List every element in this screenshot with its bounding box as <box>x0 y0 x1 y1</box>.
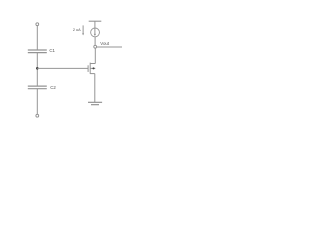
terminal bottom-left <box>36 114 39 117</box>
wire rail to current source <box>94 21 96 28</box>
wire C1 to junction to C2 <box>36 53 38 87</box>
svg-text:C2: C2 <box>50 85 56 90</box>
current source arrow <box>94 28 96 34</box>
annotation arrow down <box>82 25 84 33</box>
svg-text:2 uA: 2 uA <box>73 28 81 32</box>
junction dot node G <box>36 67 39 70</box>
current source I1 circle <box>91 28 100 37</box>
capacitor C2 <box>28 86 47 89</box>
gate bar <box>87 65 89 72</box>
drain stub <box>90 63 95 65</box>
channel bar <box>89 63 91 74</box>
capacitor C1 <box>28 50 47 53</box>
wire C2 to bottom terminal <box>36 89 38 115</box>
wire source to ground <box>94 74 96 103</box>
node IN terminal top-left <box>36 23 39 26</box>
ground <box>88 102 102 104</box>
wire node to drain <box>94 48 96 63</box>
supply rail bar top <box>89 20 102 22</box>
wire top terminal to C1 <box>36 26 38 50</box>
source stub <box>90 73 95 75</box>
svg-text:C1: C1 <box>49 48 55 53</box>
node Vout circle <box>94 45 97 48</box>
bulk-source junction dot <box>93 67 95 69</box>
svg-text:Vout: Vout <box>100 41 110 46</box>
wire junction to gate <box>37 67 88 69</box>
bulk stub <box>90 67 95 69</box>
transistor M1 nmos <box>88 63 95 74</box>
wire source to Vout node <box>94 37 96 46</box>
wire Vout stub <box>97 46 122 48</box>
